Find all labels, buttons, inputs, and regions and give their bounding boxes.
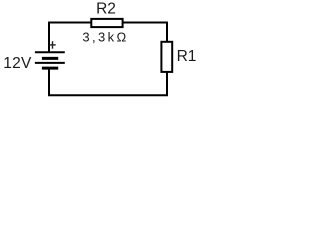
battery V1 plate short upper [42,57,58,60]
wire R1 bottom lead [166,71,168,96]
wire battery - lead [48,68,50,96]
svg-text:12V: 12V [3,55,32,72]
svg-text:R2: R2 [96,1,116,18]
wire left vertical (battery + lead) [48,22,50,53]
resistor R1 [161,42,172,72]
battery V1 plate long top [35,51,65,53]
battery V1 plate short bottom [42,67,58,70]
battery plus sign [49,41,55,49]
wire right vertical (to R1 top) [166,22,168,44]
wire top [48,22,168,24]
svg-text:R1: R1 [177,48,197,65]
wire bottom [48,94,168,96]
resistor R2 [91,19,122,27]
battery V1 plate long lower [35,62,65,64]
svg-text:3,3kΩ: 3,3kΩ [82,29,128,44]
